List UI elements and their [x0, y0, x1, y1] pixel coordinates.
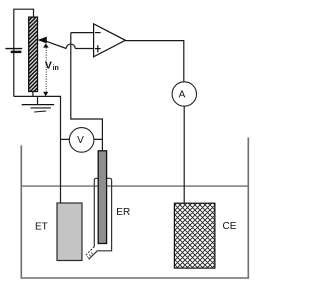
svg-text:ER: ER — [116, 207, 130, 218]
svg-text:A: A — [179, 89, 186, 100]
svg-text:V: V — [77, 135, 84, 146]
svg-text:ET: ET — [35, 221, 48, 232]
svg-text:in: in — [53, 65, 59, 72]
svg-text:V: V — [45, 59, 52, 71]
svg-text:CE: CE — [223, 221, 237, 232]
